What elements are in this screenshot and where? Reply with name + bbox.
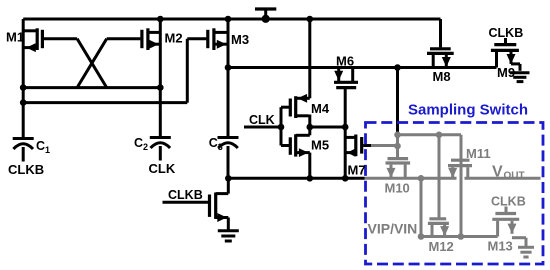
svg-text:M3: M3 <box>231 32 249 47</box>
svg-text:M13: M13 <box>488 239 513 254</box>
svg-text:CLK: CLK <box>149 161 176 176</box>
svg-text:V: V <box>492 164 503 181</box>
svg-text:C: C <box>134 136 143 150</box>
svg-text:CLKB: CLKB <box>8 162 44 177</box>
svg-text:2: 2 <box>143 142 148 152</box>
svg-text:CLKB: CLKB <box>168 188 203 202</box>
svg-text:M12: M12 <box>429 239 454 254</box>
svg-text:1: 1 <box>45 145 50 155</box>
svg-text:C: C <box>36 139 45 153</box>
svg-text:M7: M7 <box>348 163 366 178</box>
svg-text:C: C <box>209 136 218 150</box>
svg-text:M1: M1 <box>6 30 24 45</box>
svg-text:VIP/VIN: VIP/VIN <box>368 221 418 237</box>
svg-text:CLKB: CLKB <box>491 195 526 209</box>
svg-text:M6: M6 <box>336 54 354 69</box>
svg-text:M8: M8 <box>433 69 451 84</box>
svg-text:M9: M9 <box>497 65 515 80</box>
svg-text:CLKB: CLKB <box>489 26 524 40</box>
svg-text:OUT: OUT <box>504 171 525 182</box>
svg-text:3: 3 <box>218 142 223 152</box>
svg-text:M2: M2 <box>165 31 183 46</box>
svg-text:M5: M5 <box>311 138 329 153</box>
svg-text:M4: M4 <box>311 101 330 116</box>
svg-text:M10: M10 <box>385 181 410 196</box>
svg-text:Sampling Switch: Sampling Switch <box>408 102 528 119</box>
svg-text:M11: M11 <box>466 146 491 161</box>
svg-text:CLK: CLK <box>249 113 275 127</box>
